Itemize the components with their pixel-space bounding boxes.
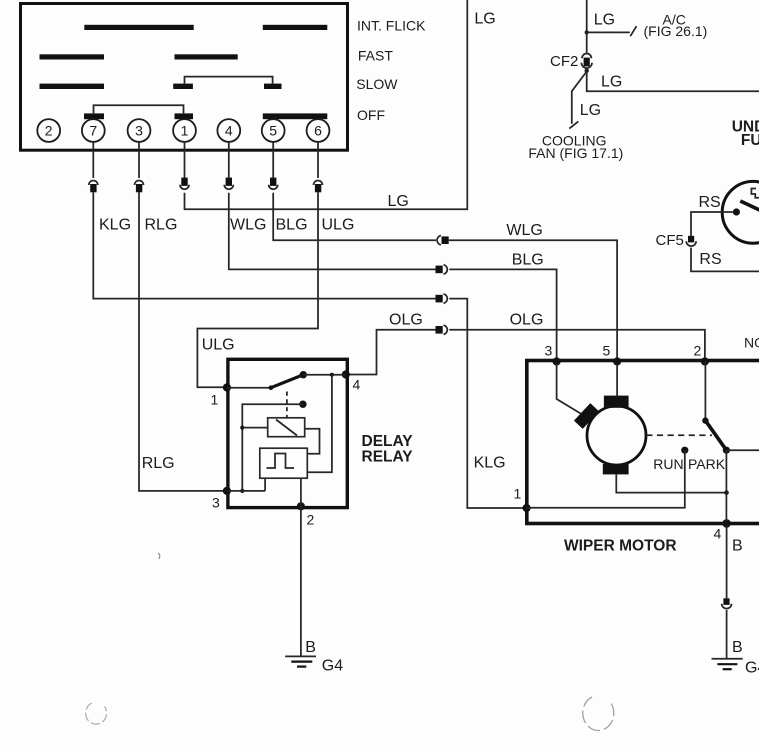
relay circle component (clipped at edge) [722,181,759,243]
svg-text:LG: LG [594,12,615,29]
connector at terminal 6 [314,181,323,193]
coil diagonal [276,420,297,436]
wire pin 2 to park pivot [704,362,706,421]
wire park contact down to pin 4 [725,450,727,521]
svg-text:FAST: FAST [358,48,393,64]
wire blade to pin 4 [303,374,346,376]
svg-text:WLG: WLG [506,222,542,239]
junction node below CF2 [585,69,589,73]
wire ULG from terminal 6 to delay relay pin 1 [197,192,318,387]
svg-text:OLG: OLG [389,312,423,329]
junction node inside delay relay [330,373,334,377]
svg-text:G4: G4 [745,660,759,677]
delay relay timer box [260,448,308,478]
svg-text:2: 2 [307,512,315,528]
svg-text:RUN: RUN [653,456,683,472]
connector at terminal 5 [269,178,278,190]
switch contact bar row OFF above terminal 7 [84,113,104,119]
svg-text:FAN (FIG 17.1): FAN (FIG 17.1) [528,145,623,161]
svg-text:6: 6 [314,123,322,139]
switch contact bar row FAST left [40,54,105,59]
svg-text:3: 3 [545,343,553,359]
switch contact bar row SLOW mid [173,84,193,89]
svg-text:DELAY: DELAY [362,433,414,450]
pulse waveform glyph [267,454,295,469]
motor armature circle [587,406,646,465]
delay relay switch pivot dot [269,385,274,390]
connector at terminal 4 [224,178,233,190]
SLOW row bridge wire [185,77,273,84]
svg-text:ULG: ULG [322,217,355,234]
svg-text:RS: RS [699,194,721,211]
junction node on park wire [724,490,729,495]
wire junction down to timer unit [307,375,332,473]
svg-text:RLG: RLG [142,455,175,472]
terminal 6 [307,119,330,142]
scan curl mark bottom left [86,703,107,724]
junction node coil left tap [240,426,244,430]
connector in OLG wire [436,325,448,334]
connector in WLG wire [437,236,449,245]
delay relay pin 1 [223,383,231,391]
wire LG to underhood fusebox [587,71,759,91]
svg-text:4: 4 [353,377,361,393]
delay relay pin 3 [223,487,231,495]
wire BLG to wiper motor pin 3 [449,269,556,358]
switch contact bar row SLOW right [264,84,282,89]
park switch blade [705,421,726,451]
svg-text:CF2: CF2 [550,53,578,70]
svg-text:PARK: PARK [688,456,726,472]
wire branch to A/C [587,31,630,33]
wire KLG to wiper motor pin 1 [449,299,524,508]
wiper motor box [527,361,759,524]
svg-text:ULG: ULG [202,337,235,354]
connector in BLG wire [436,265,448,274]
svg-text:4: 4 [225,123,233,139]
switch contact bar row INT. FLICK right [263,25,328,30]
svg-text:G4: G4 [322,658,343,675]
wiper motor pin 3 [553,357,561,365]
svg-text:RS: RS [699,251,721,268]
switch contact bar row SLOW left [40,84,105,89]
svg-text:5: 5 [603,343,611,359]
svg-text:3: 3 [135,123,143,139]
dashed actuator link [286,392,288,418]
connector at terminal 7 [89,181,98,193]
terminal 2 [37,119,60,142]
svg-text:KLG: KLG [474,455,506,472]
wire coil left tap [242,427,267,429]
motor brush top [604,396,629,408]
wire connector to ground [726,610,728,659]
wire pin 4 to ground [726,526,728,599]
delay relay pin 4 [342,370,350,378]
svg-text:5: 5 [269,123,277,139]
svg-text:INT. FLICK: INT. FLICK [357,17,426,33]
off-page slash cooling fan [569,121,578,128]
svg-text:B: B [732,639,743,656]
switch contact bar row INT. FLICK left [84,25,193,30]
wire pin 3 to left brush [557,364,581,414]
svg-text:NO: NO [744,335,759,351]
svg-text:RELAY: RELAY [362,449,414,466]
connector in ground wire [722,598,732,608]
svg-text:OFF: OFF [357,107,385,123]
wire WLG from terminal 5 [273,193,436,240]
park switch pivot dot [702,417,708,423]
wiper motor pin 5 [613,357,621,365]
svg-text:SLOW: SLOW [356,76,398,92]
svg-text:KLG: KLG [99,217,131,234]
wire terminal 7 to connector [92,142,94,178]
relay coil step symbol (clipped) [751,189,759,198]
wire RS to right edge [691,248,759,272]
svg-text:7: 7 [89,123,97,139]
wire RLG vertical from terminal 3 [139,192,224,491]
motor brush bottom [603,464,629,474]
connector at terminal 3 [135,181,144,193]
delay relay switch blade [271,375,303,388]
wire BLG from terminal 4 [229,193,436,270]
svg-text:WIPER MOTOR: WIPER MOTOR [564,538,677,555]
relay contact dot [733,208,740,215]
connector CF5 [686,236,696,246]
svg-text:LG: LG [388,193,409,210]
wiper motor pin 4 [722,519,731,528]
wire LG main feed vertical [586,0,588,53]
wiper motor pin 2 [701,357,709,365]
junction node A/C branch [585,30,589,34]
svg-text:1: 1 [514,486,522,502]
connector in KLG wire [436,294,448,303]
delay relay alternate contact dot [299,401,306,408]
connector CF2 [581,53,592,68]
off-page slash A/C [630,26,636,36]
scan curl mark bottom middle [583,697,614,730]
svg-text:LG: LG [601,74,622,91]
wire terminal 4 to connector [228,142,230,178]
wire OLG from delay relay pin 4 [348,330,436,375]
junction node pin 3 line [240,489,244,493]
switch contact bar row OFF above terminal 1 [175,113,194,119]
delay relay blade contact dot [300,371,307,378]
motor brush left [574,403,599,429]
svg-text:BLG: BLG [276,217,308,234]
switch contact bar row FAST right [175,54,238,59]
svg-text:BLG: BLG [512,252,544,269]
wire LG from terminal 1 up right side [185,0,468,209]
svg-text:B: B [305,639,316,656]
relay switch blade [740,201,759,211]
wire KLG vertical from terminal 7 [93,192,435,298]
dashed motor drive link [646,434,712,436]
wire alternate contact to pin 3 branch [242,404,303,491]
wiper motor pin 1 [523,504,531,512]
terminal 5 [262,119,285,142]
svg-text:FU: FU [741,132,759,149]
wire RS from relay to CF5 [691,212,733,236]
svg-text:4: 4 [714,526,722,542]
delay relay coil box [268,418,305,437]
OFF row bridge wire [94,105,184,113]
svg-text:2: 2 [45,123,53,139]
run contact dot [681,447,688,454]
wire bottom brush to park contact branch [616,474,726,492]
wire WLG to wiper motor pin 5 [449,240,617,358]
svg-text:CF5: CF5 [656,232,684,249]
wire terminal 6 to connector [317,142,319,178]
wire LG branch to cooling fan [572,72,586,123]
wire timer to pin 2 [300,478,302,506]
wire run contact to pin 1 [527,450,685,508]
svg-text:2: 2 [694,343,702,359]
wire delay relay pin 2 to ground [300,506,302,656]
connector at terminal 1 [180,178,189,190]
delay relay switch wire from pin 1 [227,387,271,389]
delay relay box [228,359,347,507]
wire pin 5 to top brush [616,364,618,396]
wire timer to pin 3 line [227,478,265,491]
svg-text:WLG: WLG [230,217,266,234]
wire terminal 1 to connector [184,142,186,178]
svg-text:OLG: OLG [510,312,544,329]
svg-text:LG: LG [580,102,601,119]
svg-text:3: 3 [212,495,220,511]
wire terminal 5 to connector [272,142,274,178]
svg-text:1: 1 [211,392,219,408]
wire terminal 3 to connector [138,142,140,178]
svg-text:B: B [732,538,743,555]
delay relay pin 2 [297,502,305,510]
terminal 4 [217,119,240,142]
wiper switch box [21,4,348,151]
scan speck [158,553,160,559]
terminal 1 [173,119,196,142]
wire coil right tap [305,429,320,454]
svg-text:LG: LG [474,11,495,28]
terminal 3 [128,119,151,142]
switch contact bar row OFF right wide [263,113,328,119]
svg-text:1: 1 [181,123,189,139]
wire OLG to wiper motor pin 2 [449,330,705,358]
svg-text:RLG: RLG [145,217,178,234]
terminal 7 [82,119,105,142]
svg-text:(FIG 26.1): (FIG 26.1) [644,23,708,39]
ground G4 left [285,656,316,666]
park contact dot [723,447,730,454]
wire park contact to right edge [726,449,759,451]
ground G4 right [712,659,743,669]
